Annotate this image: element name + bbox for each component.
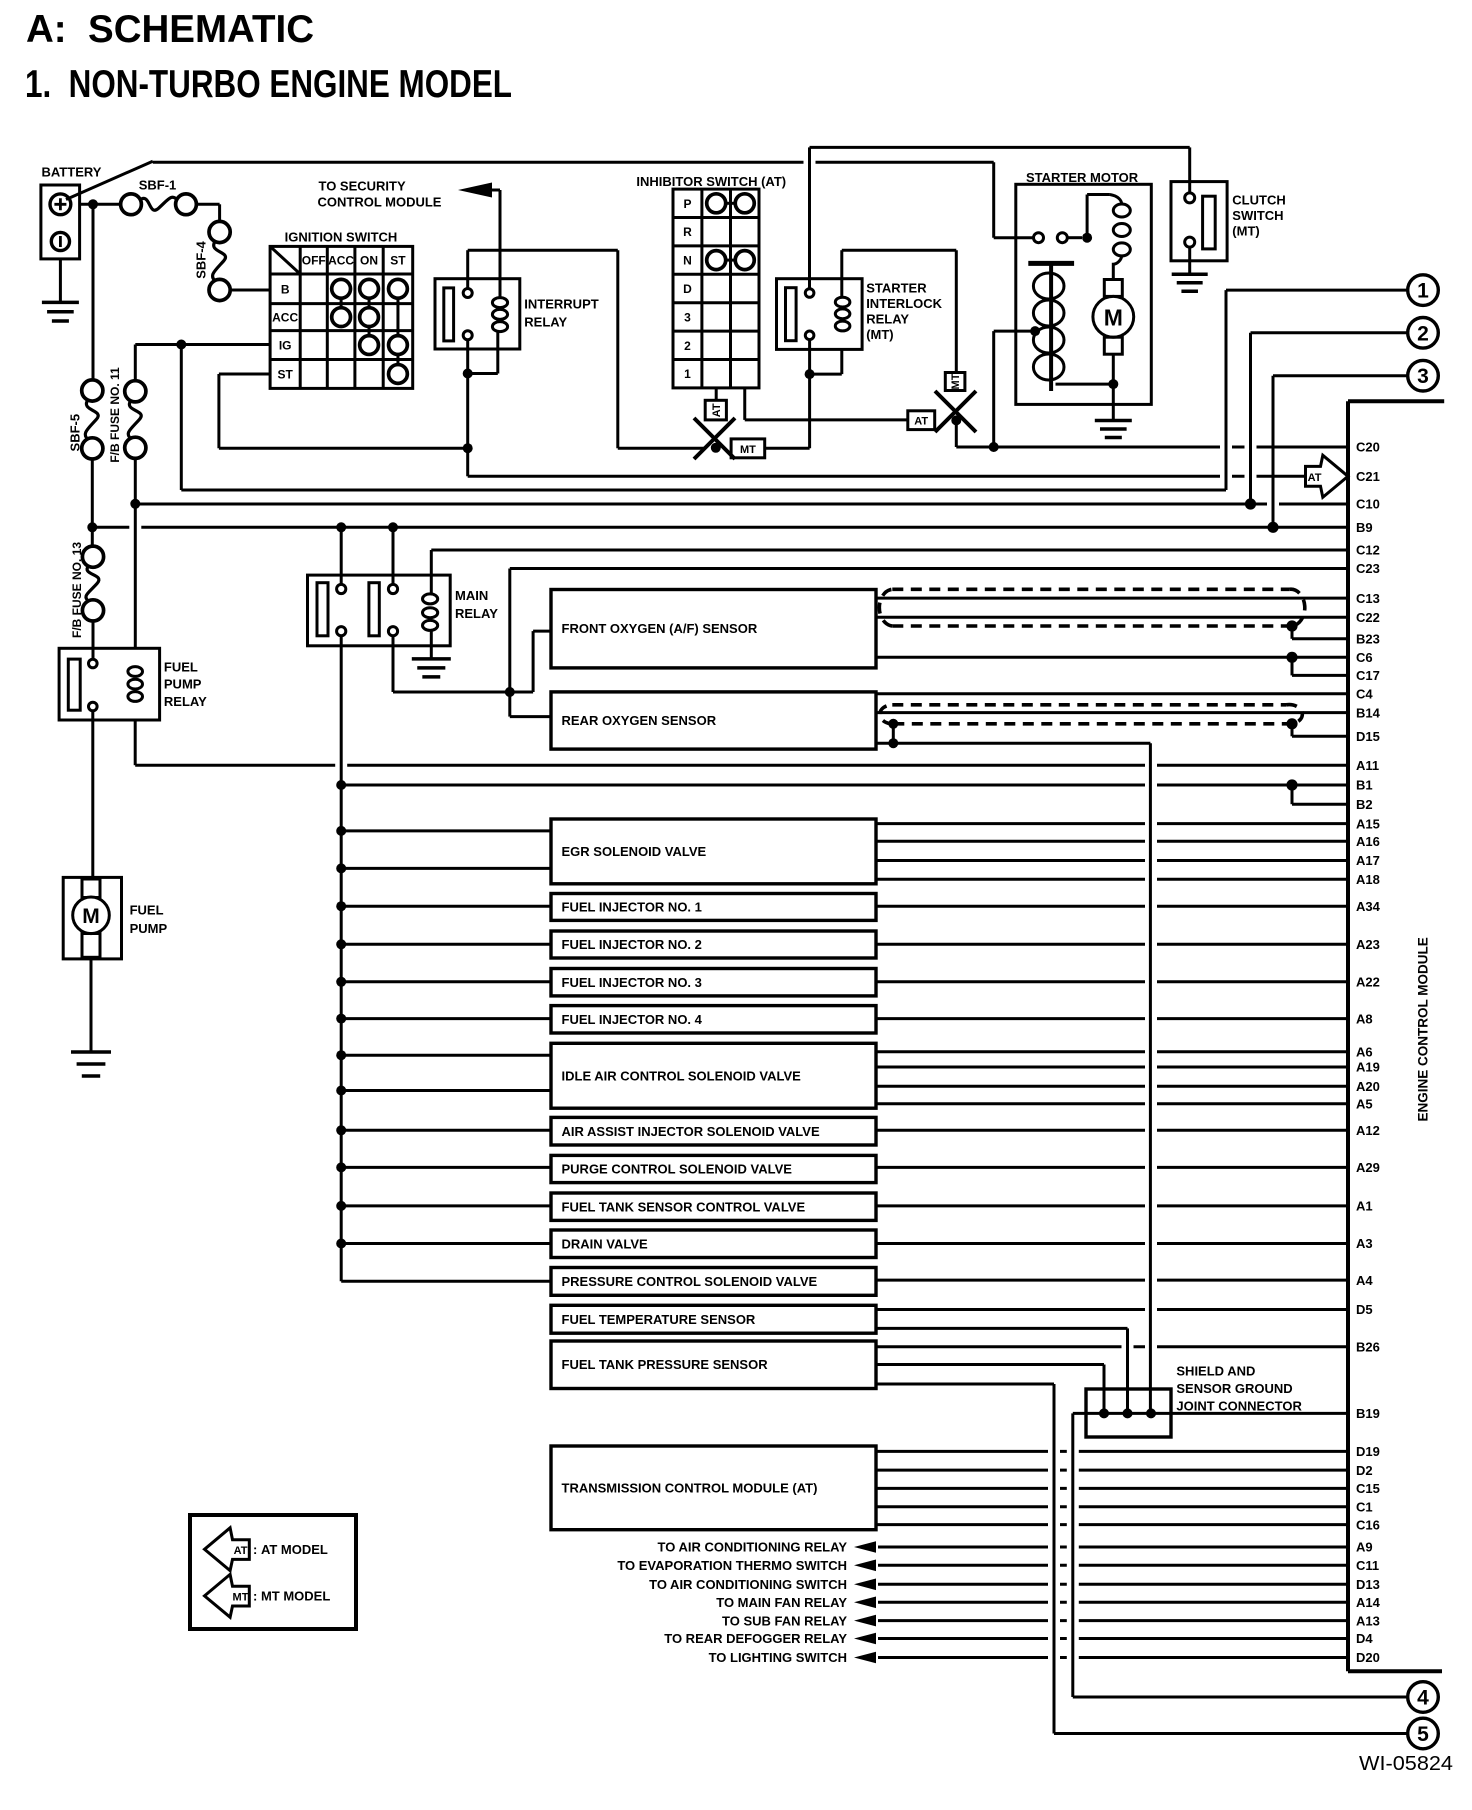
svg-text:5: 5 (1417, 1723, 1429, 1746)
svg-text:C15: C15 (1356, 1481, 1380, 1496)
svg-text:B14: B14 (1356, 705, 1381, 720)
svg-text:FUEL: FUEL (164, 659, 198, 674)
svg-text:(MT): (MT) (1232, 224, 1259, 239)
svg-text:(MT): (MT) (866, 327, 893, 342)
svg-text:A22: A22 (1356, 975, 1380, 990)
svg-text:AT: AT (234, 1545, 248, 1557)
svg-text:B9: B9 (1356, 520, 1373, 535)
svg-text:IGNITION SWITCH: IGNITION SWITCH (285, 230, 398, 245)
svg-text:A20: A20 (1356, 1079, 1380, 1094)
svg-text:P: P (683, 197, 691, 211)
svg-text:FUEL INJECTOR NO. 1: FUEL INJECTOR NO. 1 (562, 900, 702, 915)
svg-text:A5: A5 (1356, 1097, 1373, 1112)
svg-text:TO EVAPORATION THERMO SWITCH: TO EVAPORATION THERMO SWITCH (617, 1558, 847, 1573)
svg-text:PUMP: PUMP (164, 677, 202, 692)
svg-text:FRONT OXYGEN (A/F) SENSOR: FRONT OXYGEN (A/F) SENSOR (562, 621, 758, 636)
svg-text:FUEL INJECTOR NO. 3: FUEL INJECTOR NO. 3 (562, 975, 702, 990)
svg-text:CONTROL MODULE: CONTROL MODULE (318, 195, 442, 210)
svg-text:A3: A3 (1356, 1236, 1373, 1251)
svg-text:A18: A18 (1356, 872, 1380, 887)
svg-text:TRANSMISSION CONTROL MODULE (A: TRANSMISSION CONTROL MODULE (AT) (562, 1480, 818, 1495)
svg-text:D20: D20 (1356, 1650, 1380, 1665)
svg-text:A19: A19 (1356, 1060, 1380, 1075)
svg-text:WI-05824: WI-05824 (1359, 1753, 1453, 1775)
svg-text:B23: B23 (1356, 632, 1380, 647)
svg-text:MT: MT (233, 1592, 249, 1604)
svg-text:FUEL TEMPERATURE SENSOR: FUEL TEMPERATURE SENSOR (562, 1312, 756, 1327)
svg-text:SBF-1: SBF-1 (139, 177, 177, 192)
svg-text:D2: D2 (1356, 1463, 1373, 1478)
svg-text:C13: C13 (1356, 591, 1380, 606)
svg-text:TO LIGHTING SWITCH: TO LIGHTING SWITCH (709, 1650, 847, 1665)
svg-text:PURGE CONTROL SOLENOID VALVE: PURGE CONTROL SOLENOID VALVE (562, 1162, 793, 1177)
svg-text:B: B (281, 282, 290, 296)
svg-text:AT: AT (711, 403, 723, 417)
svg-text:IG: IG (279, 339, 292, 353)
svg-text:2: 2 (684, 339, 691, 353)
svg-text:B19: B19 (1356, 1406, 1380, 1421)
svg-text:A9: A9 (1356, 1540, 1373, 1555)
svg-text:C23: C23 (1356, 561, 1380, 576)
svg-text:F/B FUSE NO. 11: F/B FUSE NO. 11 (108, 367, 122, 463)
svg-text:C16: C16 (1356, 1517, 1380, 1532)
svg-text:D4: D4 (1356, 1631, 1373, 1646)
svg-text:C4: C4 (1356, 687, 1373, 702)
svg-text:FUEL INJECTOR NO. 4: FUEL INJECTOR NO. 4 (562, 1012, 703, 1027)
svg-text:A29: A29 (1356, 1160, 1380, 1175)
svg-text:C10: C10 (1356, 497, 1380, 512)
svg-text:BATTERY: BATTERY (42, 165, 102, 180)
svg-text:A4: A4 (1356, 1273, 1373, 1288)
svg-text:FUEL INJECTOR NO. 2: FUEL INJECTOR NO. 2 (562, 937, 702, 952)
svg-text:TO SECURITY: TO SECURITY (319, 179, 406, 194)
svg-text:SENSOR GROUND: SENSOR GROUND (1176, 1381, 1292, 1396)
svg-text:M: M (82, 905, 100, 928)
svg-text:TO SUB FAN RELAY: TO SUB FAN RELAY (722, 1613, 847, 1628)
svg-text:RELAY: RELAY (524, 315, 567, 330)
svg-text:ACC: ACC (328, 254, 354, 268)
svg-text:IDLE AIR CONTROL SOLENOID VALV: IDLE AIR CONTROL SOLENOID VALVE (562, 1068, 802, 1083)
svg-text:1: 1 (684, 367, 691, 381)
svg-text:A8: A8 (1356, 1011, 1373, 1026)
svg-text:TO MAIN FAN RELAY: TO MAIN FAN RELAY (716, 1595, 847, 1610)
svg-text:SBF-4: SBF-4 (194, 240, 209, 278)
svg-text:INTERRUPT: INTERRUPT (524, 297, 598, 312)
svg-text:SHIELD AND: SHIELD AND (1176, 1364, 1255, 1379)
svg-text:N: N (683, 254, 692, 268)
svg-text:PUMP: PUMP (130, 921, 168, 936)
svg-text:: AT MODEL: : AT MODEL (253, 1542, 328, 1557)
svg-text:ENGINE CONTROL MODULE: ENGINE CONTROL MODULE (1416, 937, 1431, 1121)
svg-text:4: 4 (1417, 1687, 1429, 1710)
svg-text:RELAY: RELAY (866, 312, 909, 327)
svg-text:ST: ST (277, 367, 293, 381)
svg-text:C21: C21 (1356, 469, 1380, 484)
svg-text:C11: C11 (1356, 1558, 1379, 1573)
svg-text:MT: MT (740, 444, 756, 456)
svg-text:C1: C1 (1356, 1499, 1373, 1514)
svg-text:A13: A13 (1356, 1613, 1380, 1628)
svg-text:C20: C20 (1356, 440, 1380, 455)
svg-text:1: 1 (1417, 280, 1429, 303)
svg-text:A16: A16 (1356, 834, 1380, 849)
svg-text:STARTER MOTOR: STARTER MOTOR (1026, 170, 1139, 185)
svg-text:A1: A1 (1356, 1199, 1373, 1214)
svg-text:EGR SOLENOID VALVE: EGR SOLENOID VALVE (562, 844, 707, 859)
svg-text:PRESSURE CONTROL SOLENOID VALV: PRESSURE CONTROL SOLENOID VALVE (562, 1274, 818, 1289)
svg-text:C12: C12 (1356, 543, 1380, 558)
svg-text:INTERLOCK: INTERLOCK (866, 296, 942, 311)
svg-text:REAR OXYGEN SENSOR: REAR OXYGEN SENSOR (562, 713, 717, 728)
svg-text:FUEL TANK SENSOR CONTROL VALVE: FUEL TANK SENSOR CONTROL VALVE (562, 1199, 806, 1214)
svg-text:B2: B2 (1356, 797, 1373, 812)
svg-text:A: SCHEMATIC: A: SCHEMATIC (26, 8, 314, 51)
svg-text:SWITCH: SWITCH (1232, 208, 1283, 223)
svg-text:M: M (1104, 304, 1123, 330)
svg-text:C17: C17 (1356, 668, 1380, 683)
svg-text:MT: MT (950, 373, 962, 389)
svg-text:A12: A12 (1356, 1123, 1380, 1138)
svg-text:JOINT CONNECTOR: JOINT CONNECTOR (1176, 1399, 1302, 1414)
svg-text:FUEL TANK PRESSURE SENSOR: FUEL TANK PRESSURE SENSOR (562, 1357, 769, 1372)
svg-text:TO REAR DEFOGGER RELAY: TO REAR DEFOGGER RELAY (664, 1631, 847, 1646)
svg-text:CLUTCH: CLUTCH (1232, 193, 1285, 208)
svg-text:A15: A15 (1356, 816, 1380, 831)
svg-text:A6: A6 (1356, 1045, 1373, 1060)
svg-text:INHIBITOR SWITCH (AT): INHIBITOR SWITCH (AT) (636, 174, 786, 189)
svg-text:FUEL: FUEL (130, 903, 164, 918)
svg-text:D13: D13 (1356, 1577, 1380, 1592)
svg-text:D19: D19 (1356, 1444, 1380, 1459)
svg-text:C6: C6 (1356, 650, 1373, 665)
svg-text:1. NON-TURBO ENGINE MODEL: 1. NON-TURBO ENGINE MODEL (25, 63, 512, 106)
svg-text:: MT MODEL: : MT MODEL (253, 1589, 330, 1604)
svg-text:A34: A34 (1356, 899, 1381, 914)
svg-text:3: 3 (1417, 365, 1429, 388)
svg-text:ACC: ACC (272, 311, 298, 325)
svg-text:D5: D5 (1356, 1302, 1373, 1317)
svg-text:2: 2 (1417, 322, 1429, 345)
svg-text:ON: ON (360, 254, 378, 268)
svg-text:R: R (683, 225, 692, 239)
svg-text:C22: C22 (1356, 610, 1380, 625)
svg-text:D15: D15 (1356, 729, 1380, 744)
svg-text:DRAIN VALVE: DRAIN VALVE (562, 1236, 649, 1251)
svg-text:D: D (683, 282, 692, 296)
svg-text:A11: A11 (1356, 758, 1379, 773)
svg-text:ST: ST (390, 254, 406, 268)
svg-text:TO AIR CONDITIONING RELAY: TO AIR CONDITIONING RELAY (658, 1540, 848, 1555)
svg-text:RELAY: RELAY (164, 694, 207, 709)
svg-text:B26: B26 (1356, 1340, 1380, 1355)
svg-text:AT: AT (1308, 472, 1322, 484)
svg-text:3: 3 (684, 310, 691, 324)
svg-text:A23: A23 (1356, 937, 1380, 952)
svg-text:MAIN: MAIN (455, 588, 488, 603)
svg-text:OFF: OFF (302, 254, 326, 268)
svg-text:A14: A14 (1356, 1595, 1381, 1610)
svg-text:STARTER: STARTER (866, 281, 927, 296)
svg-text:TO AIR CONDITIONING SWITCH: TO AIR CONDITIONING SWITCH (649, 1577, 847, 1592)
svg-text:AIR ASSIST INJECTOR SOLENOID V: AIR ASSIST INJECTOR SOLENOID VALVE (562, 1124, 820, 1139)
svg-text:B1: B1 (1356, 778, 1373, 793)
svg-text:RELAY: RELAY (455, 606, 498, 621)
svg-text:A17: A17 (1356, 853, 1380, 868)
svg-text:AT: AT (914, 416, 928, 428)
